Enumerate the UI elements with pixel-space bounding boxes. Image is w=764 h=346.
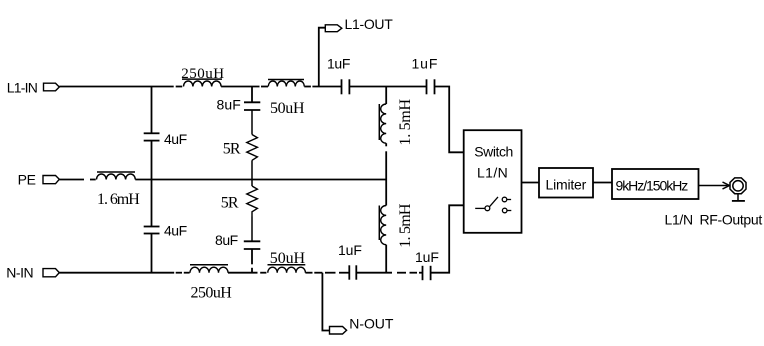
wire N rail left: [59, 272, 174, 274]
wire L1 rail to switch: [435, 87, 464, 153]
resistor R1 5R: [247, 110, 258, 180]
inductor L5 50uH: [268, 265, 306, 273]
svg-text:N-OUT: N-OUT: [349, 316, 394, 332]
svg-text:9kHz/150kHz: 9kHz/150kHz: [616, 178, 689, 194]
svg-text:5R: 5R: [221, 194, 239, 211]
svg-text:250uH: 250uH: [181, 66, 224, 82]
wire PE stub: [59, 179, 84, 181]
svg-text:N-IN: N-IN: [6, 265, 33, 281]
inductor L1 250uH: [182, 79, 222, 86]
svg-text:8uF: 8uF: [217, 97, 241, 113]
wire limiter to filter: [593, 182, 612, 184]
connector L1-OUT: [325, 25, 342, 32]
svg-text:Limiter: Limiter: [546, 177, 587, 193]
wire filter to output arrow: [699, 182, 730, 189]
wire L1 rail left: [59, 86, 173, 88]
wire L1 rail to C5: [304, 86, 311, 88]
filter box U3 9kHz/150kHz: [612, 169, 699, 199]
inductor L6 1.5mH top: [379, 104, 386, 143]
switch contact bottom: [502, 208, 511, 213]
wire PE rail: [135, 179, 386, 181]
capacitor C8 1uF: [423, 266, 431, 280]
svg-text:1uF: 1uF: [415, 249, 439, 265]
wire dashed before L2: [261, 86, 268, 88]
switch contact top: [502, 197, 511, 202]
resistor R2 5R: [247, 180, 258, 242]
wire N rail after C7: [356, 272, 392, 274]
wire dashed before L3: [90, 179, 96, 181]
wire L1 rail mid: [221, 86, 259, 88]
connector N-OUT: [330, 327, 347, 335]
wire C3 branch vertical: [251, 87, 253, 103]
svg-text:L1-IN: L1-IN: [7, 80, 37, 96]
wire C1 to PE rail: [151, 141, 153, 180]
capacitor C6 1uF: [427, 79, 435, 94]
svg-text:1uF: 1uF: [327, 56, 350, 72]
wire N rail mid: [228, 272, 258, 274]
svg-text:1uF: 1uF: [412, 56, 439, 72]
wire dashed before L5: [260, 272, 266, 274]
inductor L2 50uH: [268, 80, 304, 87]
wire dashed before L1: [176, 86, 183, 88]
capacitor C2 4uF: [144, 227, 160, 234]
svg-text:L1/N RF-Output: L1/N RF-Output: [665, 212, 763, 228]
wire N rail after L5: [305, 272, 312, 274]
svg-text:1. 6mH: 1. 6mH: [97, 191, 140, 208]
svg-text:Switch: Switch: [474, 143, 513, 159]
wire C1 branch vertical top: [151, 87, 153, 134]
svg-text:50uH: 50uH: [270, 100, 305, 117]
switch box U1: [464, 130, 522, 233]
inductor L4 250uH: [190, 265, 228, 273]
wire dashed before C7: [325, 272, 336, 274]
wire L6 to PE rail: [385, 143, 387, 146]
wire C2 to N rail: [151, 234, 153, 273]
wire L7 branch top: [385, 180, 387, 206]
svg-text:PE: PE: [18, 172, 36, 188]
svg-text:L1/N: L1/N: [477, 164, 508, 180]
wire C2 branch vertical: [151, 180, 153, 227]
svg-text:250uH: 250uH: [191, 285, 233, 302]
svg-text:5R: 5R: [223, 141, 241, 158]
connector N-IN: [43, 269, 59, 277]
svg-text:1uF: 1uF: [338, 242, 362, 258]
svg-text:L1-OUT: L1-OUT: [345, 16, 394, 32]
wire C4 to N rail: [251, 249, 253, 264]
svg-text:1. 5mH: 1. 5mH: [397, 99, 414, 146]
capacitor C3 8uF: [244, 102, 260, 110]
wire dashed before C8: [397, 272, 406, 274]
wire L6 branch top: [385, 87, 387, 105]
capacitor C7 1uF: [349, 265, 356, 279]
connector L1-IN: [44, 83, 60, 91]
wire N-OUT branch: [322, 273, 329, 331]
svg-text:4uF: 4uF: [164, 131, 187, 147]
wire L1 rail after C5: [349, 86, 426, 88]
inductor L3 1.6mH: [97, 172, 136, 180]
capacitor C5 1uF: [342, 79, 350, 94]
wire L1-OUT branch: [319, 28, 326, 87]
connector PE: [43, 176, 59, 184]
wire switch to limiter: [522, 182, 540, 184]
capacitor C1 4uF: [144, 133, 160, 140]
inductor L7 1.5mH bottom: [379, 206, 386, 245]
wire L7 to N rail: [385, 245, 387, 273]
svg-text:4uF: 4uF: [164, 223, 187, 239]
limiter box U2: [539, 168, 593, 198]
wire dashed before L4: [176, 272, 182, 274]
capacitor C4 8uF: [244, 241, 260, 249]
connector J1 RF output: [730, 178, 746, 201]
svg-text:1. 5mH: 1. 5mH: [397, 203, 414, 248]
svg-text:50uH: 50uH: [270, 250, 306, 267]
switch symbol pole: [475, 197, 498, 211]
svg-text:8uF: 8uF: [215, 232, 238, 248]
wire N rail to switch: [431, 205, 464, 272]
